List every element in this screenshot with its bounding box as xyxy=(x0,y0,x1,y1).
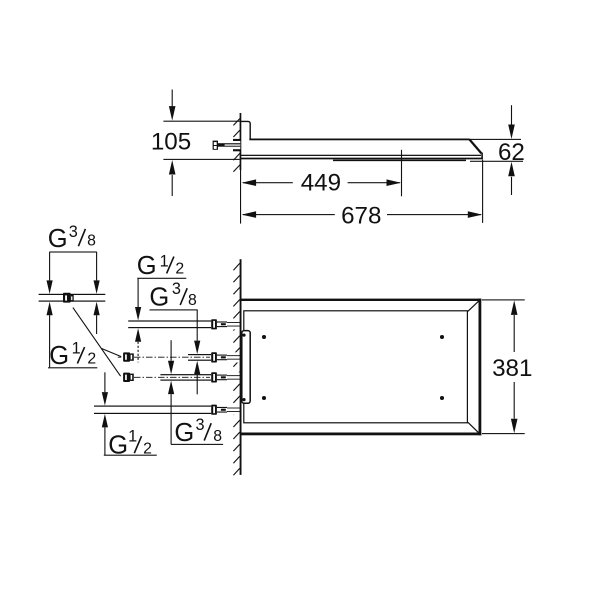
centerline pipe p3 xyxy=(134,376,210,378)
dim stack left G3/8 left side xyxy=(49,252,50,280)
svg-text:449: 449 xyxy=(301,170,341,197)
dim 105 xyxy=(163,121,240,122)
svg-text:381: 381 xyxy=(492,355,532,382)
pipe p3 wall fitting xyxy=(211,372,240,382)
pipe p4 xyxy=(94,406,211,413)
bracket screw dots xyxy=(242,334,245,337)
svg-text:8: 8 xyxy=(213,428,222,445)
svg-text:2: 2 xyxy=(87,351,96,368)
svg-text:3: 3 xyxy=(69,223,78,241)
svg-text:G: G xyxy=(149,283,169,311)
svg-text:678: 678 xyxy=(341,202,381,229)
svg-text:G: G xyxy=(48,225,68,253)
svg-text:8: 8 xyxy=(87,232,96,249)
shower head panel (side view) xyxy=(249,139,469,141)
leader lines from side fitting to connectors xyxy=(73,308,121,377)
svg-text:G: G xyxy=(174,419,194,447)
wall hatching (plan view) xyxy=(233,263,239,475)
centerline pipe p2 xyxy=(118,356,210,358)
pipe p3 xyxy=(160,375,211,380)
wall (plan view) xyxy=(240,259,242,475)
dim stack pipe p3 G3/8 xyxy=(171,340,172,361)
pipe p2 xyxy=(188,355,211,361)
pipe p2 wall fitting xyxy=(211,352,240,362)
shower panel outer rect (plan view) xyxy=(241,299,482,301)
svg-text:62: 62 xyxy=(498,139,525,166)
mounting bracket plate (plan view) xyxy=(242,331,250,404)
svg-text:1: 1 xyxy=(160,253,169,271)
corner chamfers xyxy=(468,300,480,434)
hose connector lower (pipe p3) xyxy=(123,373,130,382)
svg-text:2: 2 xyxy=(175,261,184,278)
pipe p1 xyxy=(128,321,211,328)
dim 678 xyxy=(482,160,483,223)
svg-text:105: 105 xyxy=(151,128,191,155)
fixing bolt (side view) xyxy=(213,141,241,150)
hose connector upper (pipe p2) xyxy=(123,352,130,361)
svg-text:1: 1 xyxy=(72,340,81,358)
svg-text:8: 8 xyxy=(188,292,197,309)
wall (side view) xyxy=(240,113,242,170)
pipe p4 wall fitting xyxy=(211,405,240,415)
wall hatching (side view) xyxy=(233,119,240,172)
svg-text:3: 3 xyxy=(196,416,205,434)
dim 62 xyxy=(469,139,521,140)
panel screw dots xyxy=(262,335,266,339)
side outlet pipe (detail view) xyxy=(39,294,106,295)
shower panel inner bevel rect xyxy=(244,311,468,423)
dim stack pipe p4 G1/2 xyxy=(104,372,105,392)
mounting bracket (side view) xyxy=(241,121,251,138)
dim stack pipe p2 G3/8 xyxy=(197,310,198,341)
svg-text:G: G xyxy=(137,252,157,280)
dim 449 xyxy=(401,150,402,197)
svg-text:3: 3 xyxy=(172,280,181,298)
svg-text:G: G xyxy=(49,342,69,370)
svg-text:1: 1 xyxy=(128,428,137,446)
spray face strip xyxy=(333,160,466,162)
dim stack left G3/8 right side xyxy=(96,252,97,280)
side outlet fitting xyxy=(63,293,71,303)
dim 381 xyxy=(482,299,525,300)
pipe p1 wall fitting xyxy=(211,319,240,329)
dim stack pipe p1 G1/2 xyxy=(138,278,139,307)
